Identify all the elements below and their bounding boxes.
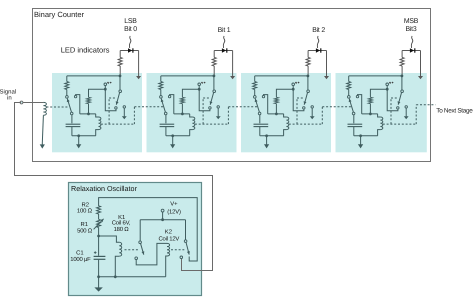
junction dot rail/LED stage 3	[401, 75, 404, 78]
squiggle lead from label to LED D1	[129, 36, 131, 48]
resistor Rb stage 0	[87, 97, 91, 103]
stage 0 top rail wire	[67, 75, 120, 77]
wire junction to K1 coil	[99, 236, 120, 242]
K2 linkage dashes	[171, 249, 184, 251]
resistor R2	[97, 206, 101, 214]
stage 3 teal background box	[336, 73, 427, 152]
wire capacitor to bottom rail stage 1	[165, 127, 167, 136]
stage 1 bottom rail	[166, 135, 190, 137]
ground stage 1	[172, 136, 174, 145]
linkage dashes to next stage 0	[134, 106, 163, 108]
output contact stage 1	[217, 106, 219, 108]
svg-text:MSB: MSB	[404, 18, 419, 25]
coil top wire stage 1	[174, 113, 190, 115]
wire rail to resistor stage 1	[160, 76, 162, 82]
wire K1 contact to K2 coil	[136, 243, 167, 265]
svg-text:in: in	[7, 95, 12, 102]
stage 2 top rail wire	[255, 75, 308, 77]
wire upper throw to coil-top rail stage 1	[170, 95, 174, 114]
V+ terminal stage 2	[292, 83, 295, 86]
relay coil stage 2	[284, 114, 287, 117]
linkage riser to switch B stage 0	[108, 98, 110, 124]
capacitor C1	[94, 255, 106, 257]
wire capacitor to bottom rail stage 2	[259, 127, 261, 136]
wire Rb to coil wire stage 2	[275, 104, 277, 114]
LED branch resistor R4a wires	[401, 51, 403, 58]
switch A lower contact stage 3	[352, 112, 355, 115]
wire Rb corner stage 3	[370, 89, 387, 97]
switch B blade stage 2	[304, 93, 307, 105]
svg-text:Signal: Signal	[0, 89, 16, 96]
mechanical link dashes from input coil	[46, 106, 68, 108]
stage 2 bottom rail	[260, 135, 284, 137]
linkage riser to next stage 1	[227, 107, 229, 124]
resistor above switch A stage 1	[159, 82, 163, 90]
relay coil stage 1	[190, 114, 193, 117]
wire V+ terminal to rail	[162, 212, 164, 220]
switch B pivot stage 0	[119, 90, 122, 93]
wire Rb corner stage 0	[89, 89, 106, 97]
LED D1 top wire	[120, 50, 138, 52]
relay coil K2	[167, 243, 170, 256]
wire Rb corner stage 1	[182, 89, 199, 97]
capacitor C stage 3	[348, 123, 363, 125]
relay coil K1	[119, 242, 121, 256]
switch A lower contact stage 2	[258, 112, 261, 115]
linkage dashes to next stage 1	[228, 106, 257, 108]
wire rail to switch B pivot stage 0	[119, 76, 121, 90]
wire V+ to junction stage 1	[198, 86, 200, 90]
V+ terminal stage 1	[198, 83, 201, 86]
wire resistor to switch A stage 3	[348, 90, 350, 96]
svg-text:Bit 2: Bit 2	[312, 27, 325, 34]
linkage riser to next stage 0	[133, 107, 135, 124]
switch B pivot stage 1	[213, 90, 216, 93]
wire rail to resistor stage 0	[66, 76, 68, 82]
wire R1 to junction	[98, 228, 100, 237]
switch A pivot stage 1	[160, 96, 163, 99]
switch B throw contact stage 1	[209, 107, 211, 109]
oscillator top rail	[99, 198, 198, 261]
LED D4 top wire	[402, 50, 420, 52]
svg-text:(12V): (12V)	[167, 208, 181, 215]
linkage dashes to next stage 2	[322, 106, 351, 108]
LED D2 top wire	[214, 50, 232, 52]
squiggle lead from label to LED D4	[411, 36, 413, 48]
coil linkage dashes stage 2	[289, 123, 323, 125]
LED D3 top wire	[308, 50, 326, 52]
switch B blade stage 0	[116, 93, 119, 105]
wire Rb corner stage 2	[276, 89, 293, 97]
relay coil stage 0	[96, 114, 99, 117]
wire V+ junction to switch B contact stage 2	[293, 89, 304, 111]
junction dot coil wire stage 2	[275, 113, 278, 116]
switch A lower contact stage 0	[70, 112, 73, 115]
svg-text:LED indicators: LED indicators	[61, 45, 110, 54]
svg-text:Coil 12V: Coil 12V	[158, 235, 179, 242]
switch A blade stage 3	[349, 99, 353, 113]
switch A upper throw contact stage 1	[168, 95, 170, 97]
label V+ stage 2	[295, 82, 297, 84]
stage 2 teal background box	[241, 73, 331, 152]
wire rail to resistor stage 3	[348, 76, 350, 82]
output down arrow stage 2	[311, 108, 313, 116]
resistor in LED branch stage 1	[212, 57, 216, 66]
switch B throw contact stage 3	[397, 107, 399, 109]
svg-text:K2: K2	[165, 228, 172, 235]
wire V+ junction to switch B contact stage 0	[105, 89, 116, 111]
wire rail to switch B pivot stage 1	[213, 76, 215, 90]
switch B throw contact stage 2	[303, 107, 305, 109]
wire input coil to ground	[42, 115, 43, 143]
svg-text:1000 μF: 1000 μF	[70, 256, 91, 263]
wire V+ junction to switch B contact stage 3	[387, 89, 398, 111]
resistor Rb stage 1	[180, 97, 184, 103]
wire C1 to bottom rail	[98, 260, 100, 277]
coil top wire stage 0	[80, 113, 96, 115]
wire Rb to coil wire stage 1	[181, 104, 183, 114]
signal return wire to oscillator output	[182, 259, 213, 271]
wire rail to switch B pivot stage 2	[307, 76, 309, 90]
wire switch A to capacitor stage 1	[165, 115, 167, 124]
capacitor C stage 2	[254, 123, 269, 125]
resistor in LED branch stage 0	[118, 57, 122, 66]
wire resistor to stage top rail 0	[119, 66, 121, 76]
svg-text:LSB: LSB	[124, 18, 137, 25]
stage 0 bottom rail	[72, 135, 96, 137]
svg-text:Bit3: Bit3	[405, 26, 416, 33]
switch K2 contact	[180, 256, 183, 259]
svg-text:R1: R1	[80, 221, 88, 228]
wire V+ to junction stage 0	[104, 86, 106, 90]
output contact stage 2	[311, 106, 313, 108]
relay coil stage 3	[378, 114, 381, 117]
linkage dashes to To Next Stage	[416, 104, 435, 106]
junction dot bottom rail stage 1	[171, 134, 174, 137]
signal return wire right vertical	[212, 175, 214, 271]
capacitor C stage 0	[66, 123, 81, 125]
output contact stage 3	[405, 106, 407, 108]
svg-text:V+: V+	[170, 200, 178, 207]
coil linkage dashes stage 3	[383, 123, 416, 125]
junction dot rail/LED stage 2	[307, 75, 310, 78]
svg-text:Relaxation Oscillator: Relaxation Oscillator	[71, 184, 138, 193]
wire Rb to coil wire stage 0	[88, 104, 90, 114]
wire resistor to stage top rail 2	[307, 66, 309, 76]
svg-text:Bit 1: Bit 1	[218, 27, 231, 34]
junction dot V+ rail	[161, 218, 164, 221]
coil linkage dashes stage 0	[101, 123, 134, 125]
ground stage 2	[266, 136, 268, 145]
wire V+ to junction stage 3	[386, 86, 388, 90]
linkage riser to switch B stage 2	[296, 98, 298, 124]
wire capacitor to bottom rail stage 0	[71, 127, 73, 136]
label V+ stage 1	[201, 82, 203, 84]
switch A upper throw contact stage 3	[356, 95, 358, 97]
stage 1 teal background box	[147, 73, 237, 152]
wire V+ to junction stage 2	[292, 86, 294, 90]
coil top wire stage 3	[362, 113, 378, 115]
svg-text:100 Ω: 100 Ω	[77, 208, 93, 215]
squiggle lead from label to LED D2	[223, 36, 225, 48]
capacitor C1 wire top	[98, 236, 100, 256]
wire rail to switch B pivot stage 3	[401, 76, 403, 90]
switch B blade stage 1	[210, 93, 213, 105]
switch A pivot stage 3	[348, 96, 351, 99]
stage 0 teal background box	[52, 73, 142, 152]
oscillator ground	[98, 277, 100, 288]
ground below input coil	[41, 143, 43, 145]
label V+ stage 0	[107, 82, 109, 84]
switch K1 blade	[141, 244, 144, 255]
stage 3 top rail wire	[349, 75, 402, 77]
switch A blade stage 1	[161, 99, 165, 113]
switch A pivot stage 2	[254, 96, 257, 99]
svg-text:C1: C1	[76, 250, 84, 257]
K1 coil bottom lead	[115, 256, 119, 277]
signal return wire left vertical	[14, 103, 16, 177]
junction dot coil wire stage 0	[87, 113, 90, 116]
switch B pivot stage 2	[307, 90, 310, 93]
wire switch A to capacitor stage 2	[259, 115, 261, 124]
linkage riser to switch B stage 3	[390, 98, 392, 124]
stage 1 top rail wire	[161, 75, 214, 77]
binary counter enclosure box	[33, 9, 431, 162]
wire switch A to capacitor stage 0	[71, 115, 73, 124]
input relay coil L1	[43, 102, 46, 115]
wire upper throw to coil-top rail stage 2	[264, 95, 268, 114]
signal input terminal	[20, 101, 23, 104]
junction dot bottom rail stage 0	[77, 134, 80, 137]
output contact stage 0	[123, 106, 125, 108]
junction dot rail/LED stage 1	[213, 75, 216, 78]
coil top wire stage 2	[268, 113, 284, 115]
signal return wire bottom horizontal	[14, 175, 213, 177]
LED D4 diode symbol	[410, 48, 414, 52]
rheostat R1	[97, 219, 101, 227]
switch B blade stage 3	[398, 93, 401, 105]
wire upper throw to coil-top rail stage 0	[76, 95, 80, 114]
resistor above switch A stage 0	[65, 82, 69, 90]
wire upper throw to coil-top rail stage 3	[358, 95, 362, 114]
output down arrow stage 0	[123, 108, 125, 116]
switch K2 blade	[186, 243, 189, 255]
wire signal terminal to down-left corner	[14, 102, 21, 104]
wire R2 to R1	[98, 214, 100, 219]
switch A blade stage 0	[67, 99, 71, 113]
linkage riser final stage	[415, 105, 417, 124]
LED branch resistor R1a wires	[119, 51, 121, 58]
LED branch resistor R2a wires	[213, 51, 215, 58]
resistor above switch A stage 3	[347, 82, 351, 90]
junction dot V+ stage 0	[104, 88, 107, 91]
LED right branch wire with arrow stage 0	[138, 51, 140, 77]
wire capacitor to bottom rail stage 3	[353, 127, 355, 136]
resistor above switch A stage 2	[253, 82, 257, 90]
resistor in LED branch stage 2	[306, 57, 310, 66]
capacitor C stage 1	[160, 123, 175, 125]
switch A upper throw contact stage 0	[74, 95, 76, 97]
wire V+ junction to switch B contact stage 1	[199, 89, 210, 111]
switch A blade stage 2	[255, 99, 259, 113]
LED right branch wire with arrow stage 3	[420, 51, 422, 77]
switch A upper throw contact stage 2	[262, 95, 264, 97]
LED D3 diode symbol	[316, 48, 320, 52]
V+ mid rail	[140, 219, 185, 221]
svg-text:180 Ω: 180 Ω	[114, 226, 130, 233]
junction dot bottom rail stage 3	[359, 134, 362, 137]
junction dot V+ stage 3	[386, 88, 389, 91]
svg-text:500 Ω: 500 Ω	[77, 228, 93, 235]
wire switch A to capacitor stage 3	[353, 115, 355, 124]
wire Rb to coil wire stage 3	[369, 104, 371, 114]
switch K1 pivot	[139, 241, 142, 244]
label V+ stage 3	[389, 82, 391, 84]
switch K2 pivot	[184, 240, 187, 243]
squiggle lead from label to LED D3	[317, 36, 319, 48]
resistor in LED branch stage 3	[400, 57, 404, 66]
junction dot rail/LED stage 0	[119, 75, 122, 78]
switch K1 contact	[135, 257, 138, 260]
LED branch resistor R3a wires	[307, 51, 309, 58]
coil linkage dashes stage 1	[195, 123, 229, 125]
K1 linkage dashes	[125, 249, 139, 251]
stage 3 bottom rail	[354, 135, 378, 137]
oscillator bottom rail	[99, 276, 166, 278]
LED D2 diode symbol	[222, 48, 226, 52]
wire resistor to stage top rail 1	[213, 66, 215, 76]
V+ terminal stage 0	[104, 83, 107, 86]
output down arrow stage 3	[405, 108, 407, 116]
junction dot ground	[97, 275, 100, 278]
wire rail to resistor stage 2	[254, 76, 256, 82]
relaxation oscillator teal box	[69, 183, 202, 296]
wire signal terminal to input coil	[23, 102, 43, 104]
LED right branch wire with arrow stage 1	[232, 51, 234, 77]
svg-text:Coil 6V,: Coil 6V,	[112, 220, 131, 227]
junction dot K1 bottom	[114, 275, 117, 278]
switch B pivot stage 3	[401, 90, 404, 93]
junction dot coil wire stage 3	[369, 113, 372, 116]
linkage riser to next stage 2	[321, 107, 323, 124]
switch A pivot stage 0	[66, 96, 69, 99]
junction dot V+ stage 2	[292, 88, 295, 91]
wire resistor to switch A stage 1	[160, 90, 162, 96]
resistor Rb stage 3	[368, 97, 372, 103]
ground stage 3	[360, 136, 362, 145]
output down arrow stage 1	[217, 108, 219, 116]
K2 coil bottom lead	[166, 256, 167, 277]
junction dot below R1	[97, 235, 100, 238]
wire rail to K2 pivot	[185, 220, 187, 240]
junction dot coil wire stage 1	[181, 113, 184, 116]
svg-text:To Next Stage: To Next Stage	[436, 108, 473, 115]
linkage riser to switch B stage 1	[202, 98, 204, 124]
V+ terminal	[161, 209, 164, 212]
junction dot V+ stage 1	[198, 88, 201, 91]
LED right branch wire with arrow stage 2	[326, 51, 328, 77]
wire resistor to stage top rail 3	[401, 66, 403, 76]
resistor Rb stage 2	[274, 97, 278, 103]
svg-text:Bit 0: Bit 0	[124, 26, 137, 33]
svg-text:Binary Counter: Binary Counter	[34, 10, 85, 19]
wire resistor to switch A stage 2	[254, 90, 256, 96]
wire rail to K1 pivot	[139, 220, 141, 241]
switch B throw contact stage 0	[115, 107, 117, 109]
svg-text:R2: R2	[81, 201, 89, 208]
V+ terminal stage 3	[386, 83, 389, 86]
switch A lower contact stage 1	[164, 112, 167, 115]
LED D1 diode symbol	[128, 48, 132, 52]
junction dot bottom rail stage 2	[265, 134, 268, 137]
ground stage 0	[78, 136, 80, 145]
wire resistor to switch A stage 0	[66, 90, 68, 96]
